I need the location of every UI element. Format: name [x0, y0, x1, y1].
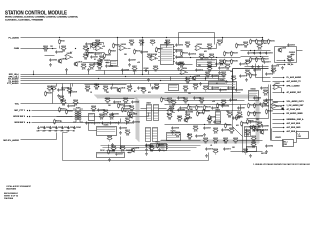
resistor R0104: [95, 40, 101, 46]
connector J0403: [215, 109, 221, 123]
value label: [55, 131, 58, 133]
off-page connector: [283, 109, 285, 111]
svg-text:R0230: R0230: [238, 117, 243, 119]
svg-text:C0189: C0189: [224, 130, 229, 132]
svg-text:R0206: R0206: [83, 54, 88, 56]
net VOL_AUDIO_OUT1: [287, 100, 304, 103]
IC U0701: [151, 141, 169, 150]
capacitor C0111: [175, 49, 182, 52]
junction: [222, 37, 223, 38]
junction: [262, 37, 263, 38]
svg-text:.1: .1: [167, 44, 168, 46]
wire: [57, 116, 73, 118]
value label: [297, 134, 300, 136]
wire rail: [165, 100, 245, 102]
value label: [106, 92, 110, 94]
resistor R0188: [193, 84, 199, 90]
svg-text:T0401: T0401: [76, 108, 81, 110]
wire to VOL_AUDIO_OUT1: [273, 101, 284, 103]
wire: [52, 89, 54, 104]
svg-text:4.7K: 4.7K: [110, 118, 114, 120]
IC block: [283, 140, 294, 147]
ground: [87, 68, 90, 72]
resistor R0167: [54, 119, 61, 125]
resistor R0117: [132, 66, 138, 72]
value label: [100, 150, 105, 152]
ground: [49, 63, 52, 67]
svg-text:R0212: R0212: [231, 76, 236, 78]
svg-text:C0193: C0193: [259, 130, 264, 132]
net RX_AUDIO_SEND: [287, 112, 304, 115]
svg-text:R0208: R0208: [111, 51, 116, 53]
svg-text:R0128: R0128: [233, 53, 238, 55]
svg-text:C0144: C0144: [134, 102, 139, 104]
net ALT_AUX_BUS: [287, 122, 301, 125]
svg-text:R0239: R0239: [251, 136, 256, 138]
capacitor C0139: [55, 126, 63, 129]
svg-text:C0177: C0177: [266, 62, 271, 64]
transistor Q301: [278, 47, 287, 52]
svg-text:100: 100: [124, 111, 127, 113]
svg-text:VOL: VOL: [15, 103, 20, 105]
value label: [137, 62, 141, 64]
svg-text:4.7: 4.7: [70, 52, 72, 54]
resistor R0148: [47, 86, 53, 92]
svg-text:R0213: R0213: [179, 62, 184, 64]
svg-text:680: 680: [95, 88, 98, 90]
capacitor C0119: [253, 51, 261, 54]
wire loop: [275, 47, 297, 63]
capacitor C0118: [247, 51, 255, 54]
svg-text:10K: 10K: [130, 44, 134, 46]
junction: [98, 78, 99, 79]
resistor R0227: [197, 111, 204, 117]
svg-text:R0222: R0222: [199, 98, 204, 100]
svg-text:ALT_AUDIO_TX: ALT_AUDIO_TX: [287, 80, 302, 83]
svg-text:4.7K: 4.7K: [220, 64, 224, 66]
resistor R0149: [45, 91, 52, 97]
resistor R0119: [156, 47, 163, 53]
resistor R0228: [203, 109, 210, 115]
capacitor C0157: [203, 126, 211, 129]
svg-text:R0219: R0219: [103, 110, 108, 112]
svg-text:1K: 1K: [273, 72, 276, 74]
svg-text:22K: 22K: [44, 50, 48, 52]
resistor R0217: [118, 103, 125, 109]
capacitor C0130: [61, 86, 69, 89]
svg-text:C0146: C0146: [88, 123, 93, 125]
capacitor C0187: [237, 106, 245, 109]
capacitor C0101: [90, 55, 98, 58]
subtitle line 2: [5, 18, 44, 21]
resistor R0200: [203, 138, 209, 144]
value label: [284, 144, 288, 146]
ground: [265, 150, 268, 154]
wire: [45, 55, 55, 57]
wire: [262, 38, 264, 43]
capacitor C0132: [137, 86, 145, 89]
capacitor C0164: [261, 104, 269, 107]
svg-text:R0201: R0201: [213, 138, 218, 140]
svg-text:R0195: R0195: [111, 146, 116, 148]
capacitor C0135: [97, 108, 105, 111]
svg-text:R0200: R0200: [203, 138, 208, 140]
svg-text:1K: 1K: [90, 92, 93, 94]
off-page connector: [284, 60, 286, 62]
svg-text:10K: 10K: [200, 102, 204, 104]
svg-text:C0107: C0107: [131, 60, 136, 62]
vertical gray bus: [136, 97, 139, 142]
svg-text:C0108: C0108: [144, 68, 149, 70]
svg-text:47K: 47K: [128, 90, 132, 92]
svg-text:R0143: R0143: [271, 68, 276, 70]
ground: [218, 71, 221, 75]
svg-text:22K: 22K: [98, 68, 102, 70]
capacitor C0166: [265, 98, 273, 101]
IC U0201: [158, 42, 175, 64]
resistor R0216: [105, 98, 111, 104]
svg-text:R101: R101: [61, 41, 65, 43]
resistor R0215: [268, 39, 275, 45]
value label: [102, 123, 103, 125]
svg-text:C0101: C0101: [93, 57, 98, 59]
resistor R0238: [253, 125, 260, 131]
ground: [57, 94, 60, 98]
resistor R0181: [241, 121, 248, 127]
svg-text:C0164: C0164: [264, 106, 269, 108]
wire: [83, 62, 101, 64]
resistor R0197: [108, 149, 115, 155]
resistor R0155: [103, 86, 109, 92]
junction: [59, 37, 60, 38]
svg-text:R0187: R0187: [183, 86, 188, 88]
capacitor C0186: [185, 110, 193, 113]
svg-text:.01: .01: [210, 145, 212, 147]
capacitor C0188: [213, 120, 221, 123]
resistor R0218: [129, 106, 135, 112]
capacitor C0106: [140, 50, 148, 53]
svg-text:4.7K: 4.7K: [90, 68, 94, 70]
note heading: [261, 153, 268, 155]
capacitor C0173: [85, 42, 93, 45]
svg-text:680: 680: [184, 90, 187, 92]
svg-text:R0218: R0218: [129, 106, 134, 108]
resistor R0212: [231, 76, 237, 82]
svg-text:47K: 47K: [204, 51, 208, 53]
svg-text:C0149: C0149: [112, 123, 117, 125]
svg-text:R0235: R0235: [249, 121, 254, 123]
svg-text:.1: .1: [93, 48, 94, 50]
svg-text:R0150: R0150: [59, 96, 64, 98]
svg-text:R0130: R0130: [233, 61, 238, 63]
svg-text:CAIN: CAIN: [14, 47, 20, 50]
capacitor C0117: [177, 62, 185, 65]
svg-text:R0225: R0225: [167, 114, 172, 116]
wire to ALT_BUS_2: [273, 131, 284, 133]
off-page connector: [283, 123, 285, 125]
svg-text:R0115: R0115: [136, 51, 141, 53]
svg-text:100: 100: [224, 142, 227, 144]
svg-text:VR0701: VR0701: [275, 137, 281, 139]
op-amp U0402: [167, 108, 175, 115]
capacitor C0160: [211, 86, 219, 89]
off-page connector: [284, 64, 286, 66]
capacitor C0133: [151, 86, 159, 89]
svg-text:5: 5: [155, 55, 156, 57]
svg-text:7: 7: [155, 59, 156, 61]
net B+_AUX: [288, 59, 296, 62]
wire SPK_LO(-): [21, 76, 226, 78]
svg-text:R0190: R0190: [250, 105, 255, 107]
resistor R0199: [187, 134, 193, 140]
ground: [257, 65, 260, 69]
resistor R0175: [196, 105, 203, 111]
capacitor C0141: [67, 126, 75, 129]
wire stub: [170, 77, 172, 81]
value label: [94, 59, 96, 61]
net HOOK SW 2: [13, 116, 26, 118]
svg-text:J0402: J0402: [146, 102, 151, 104]
svg-text:R0196: R0196: [120, 146, 125, 148]
wire stub: [96, 84, 98, 87]
wire rail: [177, 57, 241, 59]
junction: [142, 37, 143, 38]
IC block: [111, 61, 118, 66]
resistor R0106: [81, 64, 87, 70]
svg-text:4.7K: 4.7K: [264, 94, 268, 96]
wire stub: [62, 84, 64, 99]
capacitor C0154: [179, 106, 187, 109]
value label: [61, 131, 65, 133]
svg-text:1K: 1K: [205, 142, 208, 144]
value label: [43, 131, 47, 133]
capacitor C0176: [239, 74, 247, 77]
svg-text:L_1: L_1: [297, 134, 300, 136]
svg-text:SW_B+: SW_B+: [288, 64, 294, 66]
resistor R0123: [217, 40, 223, 46]
off-page connector: [283, 113, 285, 115]
svg-text:R0180: R0180: [227, 125, 232, 127]
resistor R0118: [153, 66, 159, 72]
off-page connector: [283, 105, 285, 107]
svg-text:.1: .1: [233, 80, 234, 82]
connector: [244, 127, 251, 137]
resistor R0115: [134, 49, 141, 55]
resistor R0179: [237, 112, 243, 118]
wire long rail: [96, 70, 231, 72]
svg-text:C0158: C0158: [174, 128, 179, 130]
capacitor C0161: [219, 88, 227, 91]
resistor R0208: [109, 49, 116, 55]
resistor R0102: [61, 46, 67, 52]
wire heavy top: [233, 68, 269, 70]
resistor R0114: [150, 40, 156, 46]
wire: [222, 38, 224, 43]
svg-text:R0162: R0162: [68, 111, 73, 113]
value label: [236, 125, 240, 127]
svg-text:10K: 10K: [106, 92, 110, 94]
value label: [230, 71, 233, 73]
note text: [253, 163, 311, 166]
op-amp U0203: [195, 44, 203, 51]
off-page connector: [283, 119, 285, 121]
svg-text:C0116: C0116: [214, 76, 219, 78]
svg-text:100: 100: [168, 118, 171, 120]
svg-text:0.1: 0.1: [60, 121, 62, 123]
net SPK_LO(-): [9, 76, 19, 78]
resistor R0120: [165, 40, 171, 46]
capacitor C0172: [94, 52, 102, 55]
resistor R0194: [257, 122, 263, 128]
net PL_AUDIO: [8, 36, 19, 39]
wire stub: [70, 84, 72, 97]
svg-text:U0501: U0501: [275, 83, 280, 85]
junction: [33, 74, 34, 75]
svg-text:C0103: C0103: [52, 60, 57, 62]
resistor R0145: [219, 60, 225, 66]
svg-text:47K: 47K: [214, 142, 218, 144]
svg-text:R0193: R0193: [256, 113, 261, 115]
resistor R0170: [128, 111, 135, 117]
svg-text:47K: 47K: [264, 43, 268, 45]
junction: [88, 48, 89, 49]
value label: [220, 63, 223, 65]
value label: [256, 119, 260, 121]
svg-text:R0129: R0129: [226, 61, 231, 63]
svg-text:47K: 47K: [236, 125, 240, 127]
svg-text:PTT_AUDIO: PTT_AUDIO: [7, 82, 19, 85]
svg-text:R0188: R0188: [193, 84, 198, 86]
resistor R0220: [167, 98, 173, 104]
junction: [160, 80, 161, 81]
wire to ALT_AUX_BUS: [273, 123, 284, 125]
capacitor C0147: [93, 121, 101, 124]
svg-text:C0150: C0150: [120, 123, 125, 125]
svg-text:C0129: C0129: [72, 92, 77, 94]
wire drop: [142, 39, 144, 75]
wire section loop: [63, 133, 209, 161]
svg-text:.1: .1: [245, 153, 246, 155]
resistor R0196: [120, 146, 126, 152]
wire: [85, 52, 105, 54]
svg-text:R0138: R0138: [243, 42, 248, 44]
svg-text:100: 100: [55, 131, 58, 133]
ground: [147, 78, 150, 82]
svg-text:PL_AUDIO: PL_AUDIO: [8, 36, 19, 39]
resistor R101: [59, 39, 65, 45]
svg-text:U0204: U0204: [204, 57, 209, 59]
wire diagonal: [233, 127, 243, 137]
connector J0402: [146, 102, 152, 120]
svg-text:R0240: R0240: [251, 142, 256, 144]
resistor R0165: [109, 114, 115, 120]
svg-text:1. WHERE VOLTAGES SHOWN THE P: 1. WHERE VOLTAGES SHOWN THE PART IS NOT …: [253, 163, 311, 166]
svg-text:C0102: C0102: [58, 52, 63, 54]
svg-text:Q101: Q101: [62, 59, 66, 61]
value label: [148, 92, 152, 94]
svg-text:AT_FLAG_BUS: AT_FLAG_BUS: [287, 108, 301, 111]
junction: [120, 148, 121, 149]
capacitor C0184: [221, 104, 229, 107]
footer title: [6, 185, 31, 188]
svg-text:R0204: R0204: [213, 149, 218, 151]
wire: [231, 151, 263, 153]
resistor R0147: [263, 100, 269, 106]
resistor R0240: [251, 142, 257, 148]
resistor R0237: [157, 143, 164, 149]
resistor R0223: [217, 103, 224, 109]
svg-text:R0205: R0205: [243, 149, 248, 151]
svg-text:R0136: R0136: [258, 59, 263, 61]
capacitor C0174: [239, 62, 247, 65]
svg-text:Q701: Q701: [135, 148, 139, 150]
capacitor C0140: [61, 126, 69, 129]
capacitor C0179: [113, 100, 121, 103]
ground: [249, 154, 252, 158]
capacitor C0192: [145, 144, 153, 147]
net ALT_BUS_GND: [287, 126, 301, 129]
resistor R0186: [209, 115, 216, 121]
capacitor C0128: [57, 88, 65, 91]
svg-text:C0178: C0178: [274, 66, 279, 68]
wire PTT_AUDIO: [21, 83, 226, 85]
svg-text:C0188: C0188: [216, 122, 221, 124]
svg-text:R0105: R0105: [89, 53, 94, 55]
svg-text:R0121: R0121: [185, 42, 190, 44]
transformer T0401: [73, 108, 83, 122]
resistor R0225: [167, 114, 173, 120]
resistor R0136: [256, 57, 263, 63]
svg-text:R0238: R0238: [255, 127, 260, 129]
wire to SPK_1_AUDIO: [273, 85, 284, 87]
svg-text:R0146: R0146: [263, 90, 268, 92]
svg-text:R0192: R0192: [250, 113, 255, 115]
capacitor C0129: [69, 90, 77, 93]
value label: [232, 147, 236, 149]
svg-text:Q201: Q201: [196, 76, 200, 78]
svg-text:R0181: R0181: [243, 123, 248, 125]
resistor R0198: [245, 130, 251, 136]
wire to 1_OK_AUDIO_DET: [273, 105, 284, 107]
svg-text:R0228: R0228: [205, 111, 210, 113]
svg-text:GENERAL_GND_A: GENERAL_GND_A: [287, 118, 305, 121]
svg-text:.1: .1: [211, 58, 212, 60]
svg-text:Q102: Q102: [78, 62, 82, 64]
IC block: [297, 132, 309, 139]
svg-text:HOOK SW 2: HOOK SW 2: [13, 116, 26, 118]
wire: [177, 64, 193, 66]
transistor Q101: [58, 58, 67, 63]
value label: [108, 105, 111, 107]
svg-text:100: 100: [150, 150, 153, 152]
resistor R0130: [231, 59, 238, 65]
svg-text:R0103: R0103: [83, 46, 88, 48]
resistor R0166: [107, 136, 113, 142]
svg-text:R0169: R0169: [124, 109, 129, 111]
junction: [52, 88, 53, 89]
svg-text:R0183: R0183: [213, 128, 218, 130]
capacitor C0180: [123, 104, 131, 107]
capacitor C0163: [235, 88, 243, 91]
wire stub: [122, 71, 124, 75]
capacitor C0113: [175, 61, 183, 64]
svg-text:R0227: R0227: [199, 113, 204, 115]
capacitor C0114: [188, 52, 196, 55]
value label: [124, 54, 128, 56]
svg-text:+5V: +5V: [43, 131, 47, 133]
svg-text:R0159: R0159: [61, 100, 66, 102]
svg-text:R0114: R0114: [150, 40, 155, 42]
